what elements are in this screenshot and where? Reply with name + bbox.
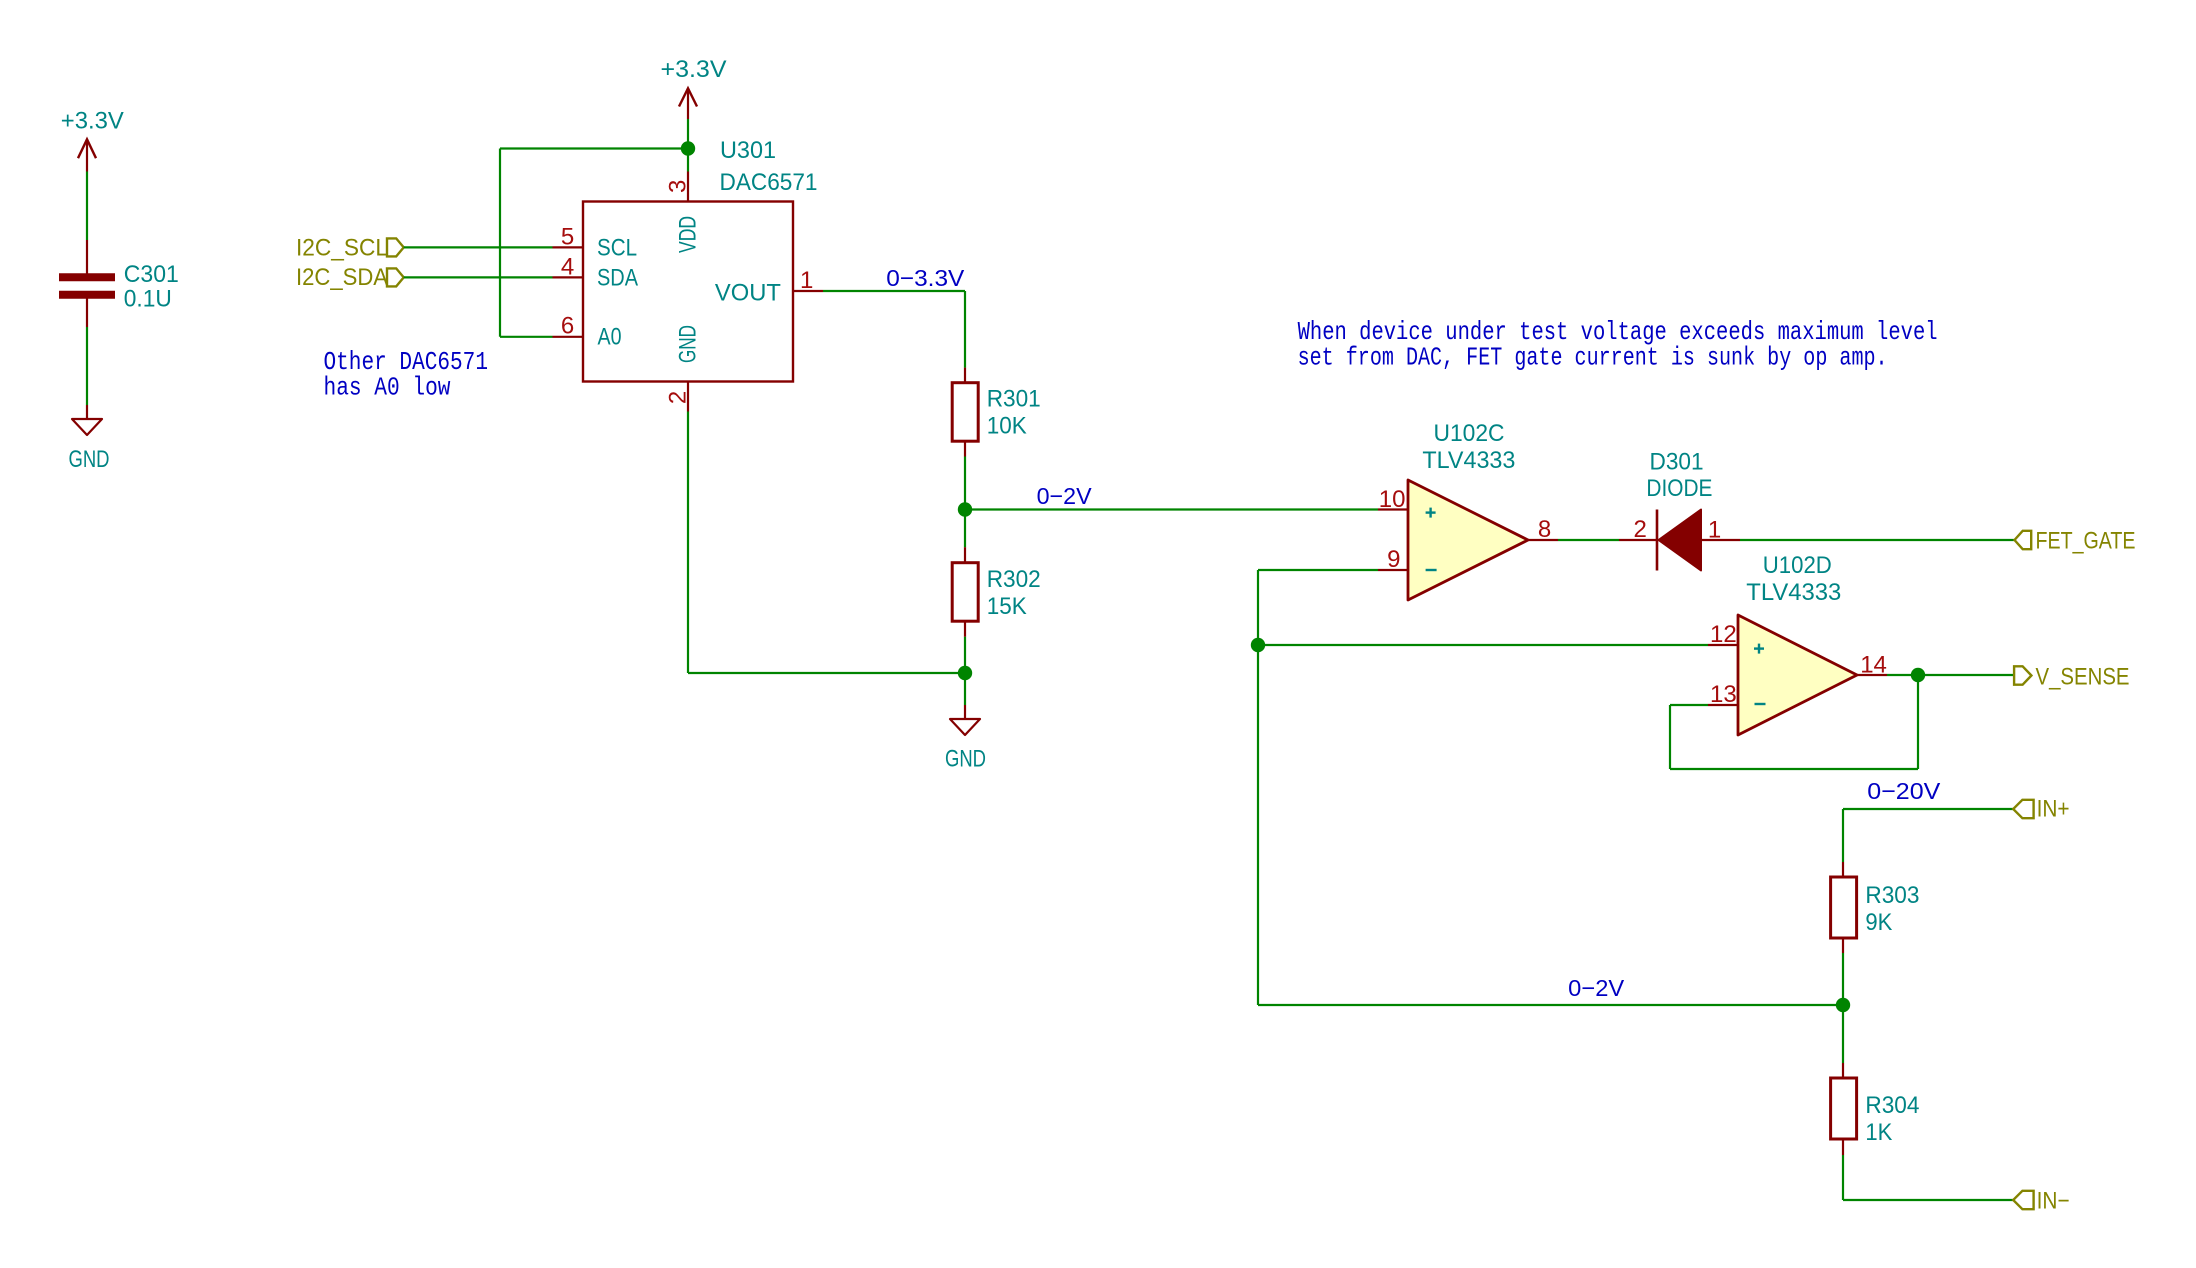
svg-text:13: 13 [1710, 681, 1737, 708]
hierarchical label IN- [2013, 1188, 2069, 1215]
wire bottom 0-2V rail [1258, 1004, 1843, 1006]
svg-text:15K: 15K [987, 593, 1027, 620]
pin 12 [1708, 621, 1738, 648]
svg-text:+3.3V: +3.3V [661, 56, 727, 83]
wire C301 to GND [86, 327, 88, 405]
resistor R302 [952, 547, 978, 637]
wire to A0 pin [500, 336, 553, 338]
svg-text:A0: A0 [598, 324, 622, 351]
svg-text:3: 3 [665, 180, 692, 193]
svg-text:GND: GND [675, 325, 702, 363]
svg-text:GND: GND [945, 746, 986, 773]
wire U301 GND pin down [687, 412, 689, 674]
op-amp U102C [1408, 480, 1528, 600]
svg-text:R301: R301 [987, 386, 1041, 413]
junction at VDD node [681, 141, 695, 155]
wire R302 to GND [964, 637, 966, 705]
ground GND (below R302) [950, 705, 980, 735]
svg-text:U102D: U102D [1763, 552, 1832, 579]
resistor R301 [952, 368, 978, 457]
svg-text:R302: R302 [987, 566, 1041, 593]
wire diode to FET_GATE [1740, 539, 2014, 541]
svg-text:0.1U: 0.1U [124, 286, 172, 313]
pin 6 A0 [553, 313, 622, 351]
pin 2 GND [665, 325, 702, 412]
wire feedback bottom [1670, 768, 1918, 770]
svg-text:U102C: U102C [1434, 420, 1505, 447]
svg-text:0−3.3V: 0−3.3V [886, 265, 964, 291]
wire power to VDD pin [687, 119, 689, 172]
junction GND node [958, 666, 972, 680]
wire pin 8 to diode [1558, 539, 1619, 541]
junction pin12 node [1251, 638, 1265, 652]
note When device under test... [1298, 317, 1938, 373]
svg-text:VOUT: VOUT [715, 280, 781, 307]
svg-text:9: 9 [1387, 546, 1400, 573]
power +3.3V symbol above U301 [679, 88, 697, 119]
pin 14 [1857, 652, 1887, 679]
pin 1 VOUT [715, 267, 823, 306]
svg-text:TLV4333: TLV4333 [1422, 447, 1515, 474]
pin 4 SDA [553, 254, 639, 292]
svg-text:R303: R303 [1865, 882, 1919, 909]
svg-text:DAC6571: DAC6571 [720, 169, 818, 196]
hierarchical label I2C_SCL [296, 234, 404, 261]
svg-text:VDD: VDD [675, 216, 702, 253]
svg-text:0−2V: 0−2V [1037, 483, 1092, 509]
wire VDD node to left [500, 147, 688, 149]
svg-text:6: 6 [561, 313, 574, 340]
svg-text:DIODE: DIODE [1646, 475, 1712, 502]
wire +3.3V to C301 [86, 172, 88, 241]
op-amp U102D [1738, 615, 1857, 735]
power +3.3V symbol (left) [78, 139, 96, 171]
junction 0-2V rail node [1836, 998, 1850, 1012]
svg-text:R304: R304 [1865, 1092, 1919, 1119]
svg-text:I2C_SCL: I2C_SCL [296, 234, 388, 261]
svg-text:1: 1 [1708, 516, 1721, 543]
hierarchical label FET_GATE [2015, 528, 2136, 555]
svg-text:10: 10 [1379, 486, 1406, 513]
wire to pin 12 [1258, 644, 1708, 646]
svg-text:12: 12 [1710, 621, 1737, 648]
svg-text:GND: GND [69, 446, 110, 473]
svg-text:1: 1 [800, 267, 813, 294]
hierarchical label I2C_SDA [296, 264, 404, 291]
svg-text:SDA: SDA [597, 265, 638, 292]
svg-text:SCL: SCL [597, 235, 637, 262]
svg-text:V_SENSE: V_SENSE [2036, 664, 2130, 691]
wire R303 to R304 [1842, 953, 1844, 1063]
wire into pin 13 [1670, 704, 1708, 706]
diode D301 [1619, 510, 1740, 571]
svg-text:IN+: IN+ [2037, 796, 2070, 823]
wire to GND node [688, 672, 965, 674]
svg-text:U301: U301 [720, 137, 776, 164]
svg-text:0−2V: 0−2V [1568, 975, 1624, 1001]
svg-text:I2C_SDA: I2C_SDA [296, 264, 388, 291]
pin 3 VDD [665, 172, 702, 254]
wire 0-2V node to op-amp pin 10 [965, 508, 1378, 510]
wire VOUT to R301 [823, 291, 965, 368]
svg-text:4: 4 [561, 254, 574, 281]
svg-text:0−20V: 0−20V [1867, 778, 1940, 804]
svg-text:FET_GATE: FET_GATE [2036, 528, 2136, 555]
wire feedback up to pin 13 [1669, 705, 1671, 769]
svg-text:5: 5 [561, 224, 574, 251]
svg-text:9K: 9K [1865, 909, 1892, 936]
junction V_SENSE node [1911, 668, 1925, 682]
svg-text:+3.3V: +3.3V [61, 108, 124, 135]
junction 0-2V node [958, 502, 972, 516]
pin 10 [1378, 486, 1408, 513]
pin 9 [1378, 546, 1408, 573]
pin 13 [1708, 681, 1738, 708]
wire I2C_SCL to pin 5 [404, 246, 553, 248]
svg-text:14: 14 [1860, 652, 1887, 679]
wire IN+ to R303 [1843, 809, 2013, 862]
capacitor C301 [59, 240, 115, 327]
wire R301 to R302 [964, 457, 966, 548]
svg-text:C301: C301 [124, 261, 179, 288]
resistor R303 [1831, 862, 1857, 953]
wire I2C_SDA to pin 4 [404, 276, 553, 278]
pin 8 [1528, 516, 1558, 543]
svg-text:8: 8 [1538, 516, 1551, 543]
svg-text:IN−: IN− [2037, 1188, 2070, 1215]
resistor R304 [1831, 1063, 1857, 1155]
wire pin 14 to V_SENSE [1887, 674, 2014, 676]
pin 5 SCL [553, 224, 638, 262]
note Other DAC6571 has A0 low [324, 347, 489, 403]
svg-text:10K: 10K [987, 413, 1027, 440]
IC U301 body [583, 202, 793, 382]
wire pin 9 to feedback column [1258, 569, 1378, 571]
wire R304 to IN- [1843, 1155, 2013, 1200]
svg-text:TLV4333: TLV4333 [1746, 579, 1841, 606]
svg-text:has A0 low: has A0 low [324, 373, 451, 403]
wire vertical down to A0 [499, 149, 501, 337]
svg-text:2: 2 [665, 391, 692, 404]
svg-text:1K: 1K [1865, 1119, 1892, 1146]
hierarchical label V_SENSE [2014, 664, 2129, 691]
wire feedback column vertical [1257, 570, 1259, 1005]
svg-text:set from DAC, FET gate current: set from DAC, FET gate current is sunk b… [1298, 342, 1888, 372]
svg-text:2: 2 [1634, 516, 1647, 543]
wire feedback down [1917, 675, 1919, 769]
ground GND (left) [72, 405, 102, 435]
hierarchical label IN+ [2013, 796, 2069, 823]
svg-text:D301: D301 [1650, 449, 1704, 476]
